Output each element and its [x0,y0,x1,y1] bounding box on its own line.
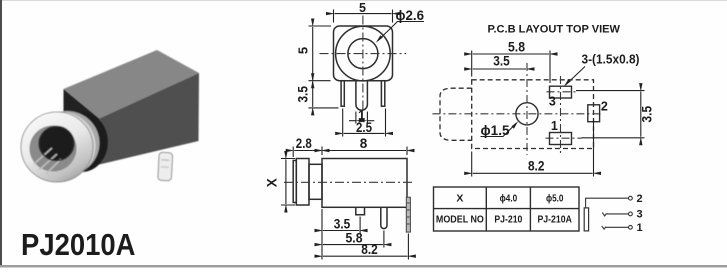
svg-text:ϕ4.0: ϕ4.0 [500,193,518,205]
svg-text:X: X [456,193,463,205]
schematic plug bar [584,208,588,231]
front view outer circle [336,26,391,81]
svg-text:8.2: 8.2 [528,159,545,174]
front view left pin [341,81,344,107]
PCB pad 1 [550,133,572,145]
svg-text:8.2: 8.2 [361,242,378,257]
svg-text:ϕ5.0: ϕ5.0 [546,193,564,205]
svg-text:X: X [265,178,280,187]
PCB pad 2 [588,105,600,122]
side view bushing end cap [293,161,296,203]
3D body right face [99,73,199,165]
svg-text:3.5: 3.5 [334,216,351,231]
3D barrel bore [30,126,77,175]
PCB dimension 5.8 [472,51,550,84]
dimension 2.5 (pin span) [343,109,386,137]
svg-text:PJ2010A: PJ2010A [21,227,136,262]
dimension 8 (body length) [323,147,407,156]
side view horizontal centerline [284,181,414,183]
schematic contact pin3 [602,213,628,216]
front view inner circle (jack opening) [348,39,378,69]
front view center pin [356,81,368,111]
svg-text:1: 1 [637,222,643,234]
dimension 2.8 (bushing length) [293,147,322,158]
3D barrel front rim [21,112,93,182]
front view right pin [381,81,384,107]
schematic wire pin2 [586,198,629,207]
PCB right dimension 3.5 [576,91,645,138]
3D solder pin [158,152,173,181]
svg-text:8: 8 [360,136,368,151]
svg-text:3-(1.5x0.8): 3-(1.5x0.8) [582,51,640,66]
svg-text:ϕ1.5: ϕ1.5 [481,122,510,138]
svg-text:3.5: 3.5 [296,86,311,103]
dimension 3.5 (to stub pin) [322,209,360,260]
PCB horizontal centerline [432,113,600,115]
dimension 8.2 (overall length) [323,234,408,260]
front view body outline [334,26,393,81]
PCB body outline (dashed) [472,80,594,149]
svg-text:ϕ2.6: ϕ2.6 [396,7,425,23]
front view vertical centerline [362,16,364,112]
svg-text:PJ-210A: PJ-210A [537,214,572,226]
schematic contact pin1 [602,226,629,229]
3D barrel dark collar [55,112,108,172]
svg-text:1: 1 [551,119,558,133]
front view horizontal centerline [320,53,407,55]
svg-text:5: 5 [359,1,366,15]
svg-text:2: 2 [637,193,643,205]
schematic terminal circle pin1 [629,225,633,229]
dimension 5 (top width) [334,10,393,23]
svg-text:2.8: 2.8 [296,136,312,151]
table outer border [434,187,580,231]
side view body outline [322,159,407,208]
page left border [0,0,2,267]
svg-text:2: 2 [601,99,608,113]
page top border [0,0,727,1]
side view bushing neck [309,164,322,199]
svg-text:3: 3 [637,209,643,221]
PCB dimension 3.5 (to hole) [473,68,526,70]
table column line 2 [529,187,531,231]
svg-text:5: 5 [296,47,311,54]
svg-text:2.5: 2.5 [356,120,372,135]
PCB bushing outline (dashed, rounded) [440,88,472,140]
side view stub pin (pin 3) [356,207,365,215]
page bottom border [0,265,727,267]
dimension 1 (center pin width) [349,112,374,124]
PCB hole phi1.5 [516,103,538,125]
table row line [434,208,580,210]
side view center pin (pin 1) [381,207,387,228]
dimension 5.8 (to center pin) [323,231,384,248]
label phi2.6 leader [376,22,424,43]
schematic terminal circle pin2 [629,196,633,200]
3D body front face [64,89,100,165]
svg-text:3: 3 [549,94,556,108]
PCB pad1 centerline [546,137,582,139]
svg-text:3.5: 3.5 [493,54,510,69]
3D photo of jack: body top face [64,50,200,119]
dimension 3.5 (left, pin length) [309,82,339,108]
svg-text:3.5: 3.5 [640,106,655,123]
side view bushing flange [296,159,309,206]
PCB vertical centerline through hole [526,63,528,155]
svg-text:PJ-210: PJ-210 [494,214,522,226]
dimension X (bushing diameter) [281,159,295,206]
PCB dimension 8.2 [472,120,594,177]
3D barrel cylinder side [28,111,100,179]
svg-text:5.8: 5.8 [508,39,525,54]
svg-text:MODEL NO: MODEL NO [436,214,484,226]
PCB pad 3 [550,86,572,98]
schematic terminal circle pin3 [629,212,633,216]
side view flat pin (pin 2) [406,197,410,232]
PCB vertical centerline through pads 3 and 1 [560,76,562,156]
svg-text:P.C.B LAYOUT TOP VIEW: P.C.B LAYOUT TOP VIEW [488,24,621,36]
PCB pad3 centerline [547,91,577,93]
dimension 5 (left height) [309,26,332,81]
table column line 1 [485,187,487,231]
